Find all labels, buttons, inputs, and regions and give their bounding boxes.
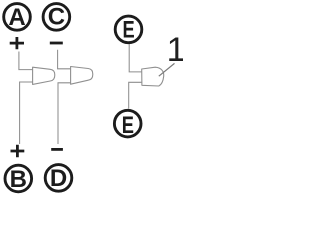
svg-text:E: E — [123, 16, 135, 43]
svg-text:A: A — [8, 4, 25, 31]
svg-text:1: 1 — [167, 31, 183, 69]
svg-text:B: B — [10, 166, 27, 193]
svg-text:E: E — [122, 112, 134, 139]
svg-text:C: C — [48, 4, 65, 31]
svg-text:D: D — [50, 165, 67, 192]
